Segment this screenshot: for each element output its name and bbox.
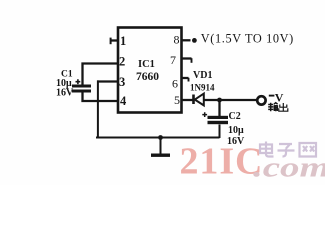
svg-text:3: 3 — [119, 75, 125, 89]
capacitor C1 plus sign — [76, 79, 81, 84]
watermark zi char — [278, 144, 295, 157]
svg-text:2: 2 — [119, 55, 125, 69]
svg-text:IC1: IC1 — [138, 59, 155, 70]
pin 1 tick — [110, 38, 112, 45]
wire pin3 vertical drop to ground rail — [97, 80, 99, 137]
pin 1 stub — [110, 39, 118, 41]
wire pin2 to C1 top — [83, 64, 119, 86]
pin 7 stub — [182, 57, 192, 59]
svg-text:8: 8 — [174, 33, 180, 47]
pin 8 stub — [182, 39, 191, 41]
svg-text:7660: 7660 — [136, 71, 159, 83]
IC IC1 7660 body — [118, 28, 182, 113]
node junction dot at ground rail — [158, 135, 163, 140]
watermark wang char — [300, 143, 317, 157]
label shuchu (output) char 2 — [279, 103, 288, 111]
wire diode to output terminal — [204, 99, 257, 101]
node junction dot at C2 — [217, 98, 222, 103]
capacitor C2 plus sign — [202, 112, 207, 117]
pin 5 stub — [182, 99, 194, 101]
svg-text:VD1: VD1 — [193, 70, 212, 81]
svg-text:16V: 16V — [56, 88, 74, 99]
svg-text:5: 5 — [174, 93, 180, 107]
svg-text:V(1.5V TO 10V): V(1.5V TO 10V) — [201, 31, 294, 45]
wire C2 bottom to rail — [219, 125, 221, 139]
diode VD1 triangle — [195, 94, 204, 106]
svg-text:1: 1 — [120, 34, 126, 48]
watermark dianzi char — [260, 142, 274, 157]
pin 7 tick — [191, 58, 193, 63]
svg-text:21IC: 21IC — [180, 141, 263, 183]
capacitor C1 plates — [72, 85, 91, 93]
wire junction to C2 — [218, 100, 220, 116]
svg-text:4: 4 — [120, 94, 127, 108]
output terminal circle — [257, 96, 265, 104]
svg-text:6: 6 — [172, 77, 178, 91]
capacitor C2 plates — [208, 116, 229, 124]
svg-text:7: 7 — [170, 53, 176, 67]
label shuchu (output) char 1 — [268, 103, 277, 112]
wire pin3 to ground rail — [97, 80, 118, 82]
pin 6 stub — [182, 77, 189, 79]
watermark .com — [253, 152, 325, 183]
svg-text:10μ: 10μ — [228, 125, 244, 136]
wire ground stub — [160, 137, 162, 154]
pin 6 tick — [188, 78, 190, 82]
node plus dot at +V — [192, 38, 197, 43]
ground bar — [151, 154, 170, 157]
wire C1 bottom to pin4 — [83, 93, 119, 102]
svg-text:C2: C2 — [229, 111, 241, 122]
wire ground rail — [96, 137, 220, 139]
diode VD1 cathode bar — [192, 95, 195, 105]
svg-text:1N914: 1N914 — [190, 83, 215, 93]
label -V minus sign — [269, 95, 275, 97]
